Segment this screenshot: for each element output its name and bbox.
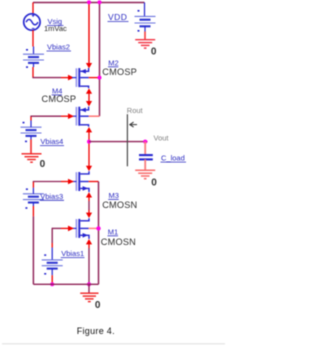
wire Vbias2 to M2 gate	[33, 63, 35, 67]
wire PMOS bulk rail	[99, 3, 101, 117]
wire Vbias1 to bottom rail	[51, 269, 53, 276]
svg-text:CMOSP: CMOSP	[42, 94, 77, 104]
wire M3 source to M1 drain	[86, 192, 92, 197]
svg-text:Vbias2: Vbias2	[47, 43, 70, 52]
battery VDD	[135, 3, 156, 32]
wire Vbias3 to bottom rail	[32, 203, 34, 207]
wire output node Vout	[89, 141, 148, 143]
svg-text:Rout: Rout	[127, 106, 144, 115]
svg-text:M1: M1	[108, 228, 118, 237]
svg-text:Vbias3: Vbias3	[40, 192, 63, 201]
pin arrow M2 gate	[68, 75, 74, 81]
wire M1 source down	[86, 239, 92, 244]
svg-text:CMOSP: CMOSP	[102, 67, 137, 77]
annotation Rout	[127, 106, 144, 166]
wire VDD battery to ground	[144, 32, 146, 40]
wire VDD top rail	[33, 2, 145, 4]
junction node Vout / C_load	[143, 140, 147, 144]
pin arrow M3 gate	[68, 179, 74, 185]
transistor M4 (PMOS)	[72, 107, 89, 127]
svg-text:0: 0	[151, 177, 157, 188]
wire Vbias4 to ground	[30, 136, 32, 140]
svg-text:Figure 4.: Figure 4.	[77, 326, 115, 336]
wire M2 bulk to rail	[89, 77, 100, 79]
junction node bottom rail / ground	[87, 282, 91, 286]
wire M1 bulk to rail	[89, 227, 99, 229]
battery Vbias4	[21, 122, 42, 142]
wire M2 drain to M4 source	[86, 88, 92, 93]
transistor M2 (PMOS)	[72, 68, 89, 88]
battery Vbias1	[42, 254, 63, 274]
voltage source Vsig	[24, 14, 40, 30]
junction node M1 bulk	[96, 226, 100, 230]
svg-text:0: 0	[151, 47, 157, 58]
ground 0 at VDD	[135, 40, 155, 48]
wire VDD rail to M2 source	[88, 3, 90, 64]
svg-text:0: 0	[40, 159, 46, 170]
wire C_load to ground	[144, 159, 146, 170]
wire M3 bulk to NMOS bulk rail	[89, 181, 99, 183]
svg-text:1mVac: 1mVac	[44, 24, 67, 33]
wire Vbias4 to M4 gate	[30, 116, 32, 120]
wire Vbias3 to M3 gate	[32, 188, 34, 194]
svg-text:Vbias4: Vbias4	[40, 137, 63, 146]
svg-text:Vout: Vout	[154, 133, 170, 142]
wire M4 drain to M3 drain (output node)	[86, 127, 92, 132]
wire Vout to C_load	[144, 142, 146, 155]
transistor M3 (NMOS)	[72, 171, 89, 192]
wire ground stub	[88, 284, 90, 293]
pin arrow M2 source	[86, 63, 92, 68]
svg-text:CMOSN: CMOSN	[101, 237, 136, 247]
wire Vsig top lead	[32, 3, 34, 15]
svg-text:Vbias1: Vbias1	[61, 249, 84, 258]
capacitor C_load	[139, 155, 153, 159]
junction node Vbias1 bottom	[50, 282, 54, 286]
page divider line	[2, 343, 225, 345]
pin arrow M4 gate	[68, 113, 74, 119]
svg-text:M3: M3	[109, 191, 119, 200]
junction node Vout left	[87, 140, 91, 144]
svg-text:C_load: C_load	[161, 154, 185, 163]
wire bottom ground rail	[33, 283, 98, 285]
ground 0 main	[80, 293, 98, 301]
svg-text:CMOSN: CMOSN	[102, 200, 137, 210]
wire Vsig to Vbias2	[32, 30, 34, 46]
junction node VDD/M2	[87, 0, 91, 4]
ground 0 under Vbias4	[22, 154, 42, 162]
ground 0 under C_load	[135, 170, 155, 178]
wire Vbias1 to M1 gate	[52, 227, 61, 229]
transistor M1 (NMOS)	[72, 218, 89, 239]
svg-text:0: 0	[95, 300, 101, 311]
svg-text:VDD: VDD	[108, 12, 127, 22]
battery Vbias3	[23, 188, 44, 208]
junction node bulk rail top	[98, 0, 102, 4]
junction node M2 bulk	[98, 76, 102, 80]
battery Vbias2	[23, 49, 44, 68]
